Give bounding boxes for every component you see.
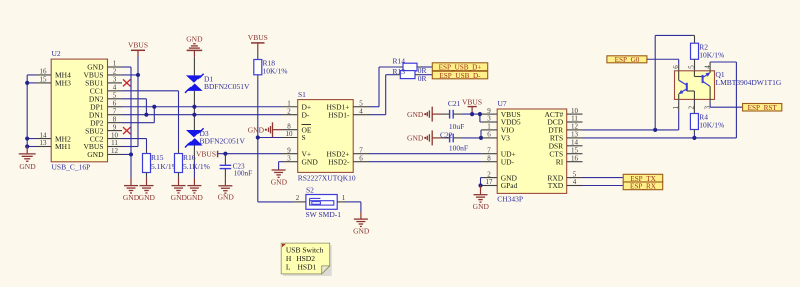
capacitor C21 10uF	[441, 99, 465, 131]
no-connect X pin 9	[123, 127, 131, 134]
svg-text:S2: S2	[306, 186, 314, 195]
svg-text:USB_C_16P: USB_C_16P	[52, 162, 91, 171]
resistor R14 0R	[393, 57, 433, 76]
svg-text:R15: R15	[151, 153, 164, 162]
svg-text:GND: GND	[473, 202, 490, 211]
svg-text:4: 4	[703, 65, 711, 69]
port ESP_RST	[743, 104, 782, 112]
wire HSD2- to UD-	[369, 161, 497, 163]
wire HSD1- riser	[369, 75, 400, 115]
port ESP_G0	[607, 56, 647, 64]
svg-text:MH1: MH1	[55, 142, 71, 151]
svg-text:R14: R14	[393, 57, 406, 66]
svg-text:BDFN2C051V: BDFN2C051V	[204, 82, 250, 91]
svg-text:GND: GND	[186, 34, 203, 43]
svg-text:9: 9	[113, 123, 117, 131]
port ESP_USB_D-	[432, 71, 487, 80]
junction dot DP2/D+	[152, 105, 156, 109]
port ESP_USB_D+	[432, 63, 487, 72]
capacitor C23 100nF	[220, 154, 252, 179]
junction dot U7 GND	[478, 183, 482, 187]
svg-text:GND: GND	[302, 157, 319, 166]
svg-text:HSD1-: HSD1-	[328, 110, 350, 119]
svg-text:100nF: 100nF	[449, 144, 468, 153]
svg-text:GND: GND	[407, 110, 424, 119]
resistor R15	[143, 149, 178, 178]
ground GND S2	[353, 212, 370, 236]
power GND OE	[248, 122, 298, 137]
svg-text:16: 16	[40, 68, 48, 76]
transistor Q1 LMBT3904DW1T1G	[672, 65, 782, 110]
svg-text:VBUS: VBUS	[248, 33, 268, 42]
power GND top	[186, 34, 203, 56]
capacitor C22 100nF	[440, 130, 468, 152]
diode D1 BDFN2C051V	[185, 57, 250, 93]
svg-text:1: 1	[672, 105, 680, 109]
svg-text:U2: U2	[52, 49, 61, 58]
svg-text:12: 12	[111, 147, 119, 155]
ground GND R15	[139, 178, 156, 202]
svg-text:GND: GND	[87, 150, 104, 159]
resistor R13 0R	[393, 67, 433, 83]
junction dot RTS/R4	[692, 136, 696, 140]
junction dot VBUS pin2	[136, 73, 140, 77]
svg-text:ESP_RX: ESP_RX	[630, 183, 657, 191]
junction dot R18/S	[256, 135, 260, 139]
wire DP1 D+ line to S1	[122, 106, 298, 108]
junction dot D1/D+	[192, 105, 196, 109]
svg-text:5.1K/1%: 5.1K/1%	[151, 162, 178, 171]
wire GND pins to ground	[122, 67, 131, 178]
svg-text:ESP_USB_D-: ESP_USB_D-	[439, 72, 481, 80]
resistor R16	[175, 149, 210, 178]
svg-text:14: 14	[40, 131, 48, 139]
svg-text:10: 10	[286, 130, 294, 138]
wire S1 GND pin to ground	[279, 162, 298, 170]
svg-text:0R: 0R	[418, 74, 427, 83]
wire RTS line	[583, 62, 737, 138]
svg-text:6: 6	[113, 99, 117, 107]
svg-text:GPad: GPad	[501, 181, 518, 190]
svg-text:R16: R16	[183, 153, 196, 162]
junction dot VIO/V3	[479, 136, 483, 140]
wire VBUS vertical	[122, 56, 138, 147]
wire Q1 pin3 to ESP_RST	[710, 99, 743, 107]
wire HSD1+ riser	[369, 67, 403, 107]
port ESP_TX	[623, 174, 663, 183]
port ESP_RX	[623, 182, 663, 191]
svg-text:8: 8	[113, 115, 117, 123]
svg-text:10K/1%: 10K/1%	[263, 67, 288, 76]
resistor R18	[254, 50, 288, 81]
svg-text:S1: S1	[298, 90, 306, 99]
svg-text:RI: RI	[556, 157, 564, 166]
svg-text:D-: D-	[302, 110, 310, 119]
wire DN1 D- line to S1	[122, 114, 298, 116]
svg-text:C22: C22	[440, 130, 453, 139]
wire S2 to ground	[337, 202, 361, 212]
ground GND D3	[187, 178, 204, 202]
resistor R4 10K	[690, 99, 724, 137]
svg-text:VBUS: VBUS	[128, 40, 148, 49]
svg-text:TXD: TXD	[548, 181, 564, 190]
svg-text:100nF: 100nF	[234, 169, 252, 177]
wire RXD to ESP_TX	[583, 177, 624, 179]
wire U7 GND pins to ground	[481, 178, 498, 186]
svg-text:UD-: UD-	[501, 157, 515, 166]
svg-text:BDFN2C051V: BDFN2C051V	[200, 137, 246, 146]
note USB Switch	[281, 243, 332, 276]
wire D3 to ground	[193, 146, 195, 179]
ground GND U7	[473, 186, 490, 212]
svg-text:GND: GND	[271, 178, 288, 187]
wire DTR to R2 top	[655, 35, 694, 129]
wire CC1 to R16	[122, 91, 179, 149]
wire CC2 to R15	[122, 139, 147, 149]
diode D3 BDFN2C051V	[185, 128, 246, 147]
svg-text:U7: U7	[498, 99, 507, 108]
svg-text:5.1K/1%: 5.1K/1%	[183, 162, 210, 171]
power VBUS R18	[248, 33, 268, 50]
junction dot DTR/R2	[653, 128, 657, 132]
wire R18 to S and S2	[258, 81, 298, 202]
svg-text:15: 15	[40, 76, 48, 84]
junction dot DN2/D-	[144, 113, 148, 117]
wire DTR line	[583, 99, 679, 129]
wire HSD2+ to UD+	[369, 153, 497, 155]
svg-text:8: 8	[287, 122, 291, 130]
svg-text:13: 13	[40, 139, 48, 147]
svg-text:GND: GND	[187, 193, 204, 202]
svg-text:GND: GND	[123, 193, 140, 202]
svg-text:C21: C21	[448, 99, 461, 108]
USB-UART U7 CH343P	[482, 99, 583, 203]
power GND C21	[407, 107, 440, 122]
ground GND left	[19, 147, 37, 172]
svg-text:4: 4	[113, 84, 117, 92]
power VBUS C23	[196, 150, 218, 159]
svg-text:GND: GND	[248, 125, 265, 134]
power GND C22	[407, 130, 440, 145]
wire ESP_G0 to Q1 pin6	[647, 59, 679, 71]
wire DN2 join D-	[122, 99, 146, 115]
wire DP2 join D+	[122, 107, 154, 123]
svg-text:VBUS: VBUS	[196, 150, 216, 159]
wire C21 to U7 VBUS	[462, 113, 482, 115]
svg-text:VBUS: VBUS	[462, 98, 482, 107]
resistor R2 10K	[691, 42, 725, 70]
svg-text:GND: GND	[353, 227, 370, 236]
svg-text:7: 7	[487, 146, 491, 154]
wire VIO riser	[480, 130, 483, 138]
wire C22 to U7 V3	[462, 137, 482, 139]
ground GND R16	[171, 178, 188, 202]
wire VDD5 riser	[480, 114, 482, 122]
svg-text:10K/1%: 10K/1%	[699, 51, 724, 60]
svg-text:1: 1	[113, 60, 117, 68]
wire D1 to data lines	[193, 91, 195, 130]
svg-text:10: 10	[111, 131, 119, 139]
junction dot GND pin12	[129, 152, 133, 156]
svg-text:5: 5	[688, 65, 696, 69]
svg-text:SW SMD-1: SW SMD-1	[306, 210, 342, 219]
svg-text:HSD2-: HSD2-	[328, 157, 350, 166]
junction dot VDD5	[478, 112, 482, 116]
svg-text:V3: V3	[501, 134, 510, 143]
junction dots MH net	[25, 81, 29, 149]
junction dot D3/D-	[192, 113, 196, 117]
wire MH pins to ground	[27, 75, 36, 147]
svg-text:S: S	[302, 133, 306, 142]
svg-text:CH343P: CH343P	[497, 195, 523, 204]
svg-text:3: 3	[113, 76, 117, 84]
ground GND 1	[123, 178, 140, 202]
power VBUS left	[128, 40, 148, 56]
svg-text:ESP_USB_D+: ESP_USB_D+	[439, 64, 482, 72]
svg-text:GND: GND	[171, 193, 188, 202]
switch S2 SW SMD-1	[296, 186, 346, 219]
svg-text:LMBT3904DW1T1G: LMBT3904DW1T1G	[716, 78, 782, 87]
junction dot VBUS tap	[470, 112, 474, 116]
svg-text:GND: GND	[139, 193, 156, 202]
svg-text:6: 6	[672, 65, 680, 69]
no-connect X pin 3	[123, 79, 131, 86]
connector U2 USB_C_16P	[36, 49, 122, 171]
svg-text:RS2227XUTQK10: RS2227XUTQK10	[298, 173, 356, 182]
svg-text:GND: GND	[19, 162, 36, 171]
svg-text:MH3: MH3	[55, 79, 71, 88]
svg-text:ESP_RST: ESP_RST	[748, 104, 778, 112]
svg-text:1: 1	[287, 99, 291, 107]
analog switch S1 RS2227XUTQK10	[286, 90, 370, 183]
svg-text:ESP_G0: ESP_G0	[615, 56, 640, 64]
power VBUS U7	[462, 98, 482, 114]
ground GND C23	[218, 178, 235, 201]
svg-text:GND: GND	[218, 193, 235, 202]
svg-text:2: 2	[287, 107, 291, 115]
junction dot C23	[223, 152, 227, 156]
svg-text:7: 7	[113, 107, 117, 115]
wire TXD to ESP_RX	[583, 185, 624, 187]
svg-text:HSD1: HSD1	[298, 263, 317, 272]
svg-text:2: 2	[296, 194, 300, 202]
wire S to S2	[258, 201, 306, 203]
svg-text:2: 2	[113, 68, 117, 76]
svg-text:8: 8	[487, 154, 491, 162]
wire VBUS to S1 V+	[218, 153, 298, 155]
ground GND S1	[271, 170, 288, 187]
svg-text:5: 5	[113, 92, 117, 100]
svg-text:11: 11	[111, 139, 118, 147]
svg-text:1: 1	[342, 194, 346, 202]
svg-text:GND: GND	[407, 134, 424, 143]
svg-text:L: L	[286, 263, 291, 272]
svg-text:R13: R13	[393, 67, 406, 76]
svg-text:10K/1%: 10K/1%	[699, 121, 724, 130]
